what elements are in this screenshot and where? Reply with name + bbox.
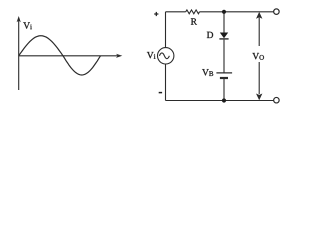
vo arrow upper head	[256, 12, 262, 19]
graph vertical axis	[18, 18, 20, 90]
resistor R zigzag	[186, 10, 200, 14]
battery label VB	[202, 69, 213, 76]
vo arrow upper line	[258, 18, 260, 47]
wire: left branch down to source	[165, 12, 167, 48]
wire: bottom horizontal	[166, 100, 274, 102]
wire: battery to bottom junction	[223, 79, 225, 101]
wire: resistor to top-right terminal	[200, 11, 274, 13]
resistor label R	[191, 18, 197, 24]
diode label D	[207, 32, 213, 38]
graph label Vi	[23, 22, 32, 29]
ac source sine symbol	[159, 53, 169, 59]
graph vertical axis arrowhead	[17, 16, 21, 22]
diode D triangle	[220, 33, 228, 39]
battery VB long plate	[216, 72, 232, 74]
wire: diode branch from top junction	[223, 12, 225, 33]
junction dot bottom	[222, 98, 226, 102]
minus sign source polarity	[159, 92, 162, 94]
wire: diode to battery	[223, 40, 225, 73]
junction dot top	[222, 10, 226, 14]
diode D cathode bar	[219, 38, 228, 40]
plus sign source polarity	[154, 12, 158, 16]
input sine waveform	[19, 36, 101, 75]
vo arrow lower head	[256, 94, 262, 101]
terminal top-right	[274, 9, 280, 15]
battery VB short plate	[220, 77, 228, 79]
graph horizontal axis arrowhead	[116, 54, 122, 58]
graph horizontal axis	[19, 55, 120, 57]
output label Vo	[252, 53, 264, 60]
vo arrow lower line	[258, 62, 260, 94]
wire: source to bottom wire	[165, 64, 167, 101]
terminal bottom-right	[274, 97, 280, 103]
wire: top left segment to resistor	[166, 11, 186, 13]
source label Vi	[147, 52, 156, 59]
ac source Vi circle	[158, 48, 174, 64]
